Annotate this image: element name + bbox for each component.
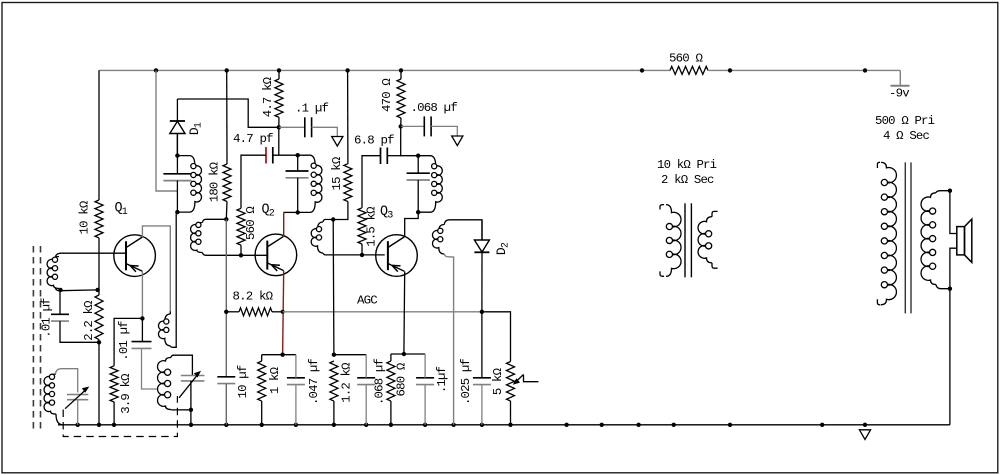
svg-text:560 Ω: 560 Ω (244, 206, 258, 240)
ferrite rod dashed line 2 (40, 246, 42, 430)
junction dot bottom rail 15 (600, 423, 604, 427)
wire 470 node down to IF3 (401, 126, 419, 155)
wire .025 column (481, 312, 483, 378)
junction dot bottom rail 1 (97, 423, 101, 427)
wire pot bottom (510, 401, 512, 425)
svg-text:15 kΩ: 15 kΩ (330, 156, 344, 190)
label 500 ohm pri (875, 114, 935, 128)
capacitor IF3 internal (407, 173, 430, 180)
oscillator feedback winding (158, 314, 170, 346)
label .01 uf osc (117, 321, 131, 361)
resistor R 470 ohm (397, 79, 405, 118)
wire IF3 sec top lead (444, 220, 482, 240)
capacitor IF2 internal (286, 171, 309, 178)
wire IF3 spine top (417, 156, 419, 174)
resistor R 680 ohm (387, 361, 395, 401)
svg-text:.01 µf: .01 µf (40, 298, 54, 338)
wire agc mid lead (272, 311, 283, 313)
svg-text:2 kΩ Sec: 2 kΩ Sec (661, 173, 714, 187)
gang dashed link (63, 396, 177, 437)
wire Q2 collector red (283, 212, 285, 236)
wire 15k bottom jog (333, 202, 348, 220)
label .1 uf (295, 102, 329, 116)
wire q3 bias column (332, 220, 335, 355)
junction dot bottom rail 9 (389, 423, 393, 427)
svg-text:AGC: AGC (357, 294, 377, 308)
wire node to .1uf (279, 126, 305, 128)
node dot IF1 top (175, 153, 179, 157)
svg-text:4.7 pf: 4.7 pf (233, 132, 273, 146)
junction dot bottom rail 6 (294, 423, 298, 427)
wire group1 bar (262, 354, 296, 356)
capacitor .068 uf em (357, 378, 375, 385)
junction dot bottom rail 0 (76, 423, 80, 427)
junction dot bottom rail 13 (508, 423, 512, 427)
svg-text:2.2 kΩ: 2.2 kΩ (82, 300, 96, 341)
resistor R 2.2 kohm (95, 295, 103, 340)
node dot speaker bottom (948, 287, 952, 291)
svg-text:500 Ω Pri: 500 Ω Pri (875, 114, 935, 128)
node dot group1 (280, 353, 284, 357)
node dot rail D (345, 68, 349, 72)
wire Q3 collector (405, 212, 419, 237)
label D1 (187, 122, 205, 135)
node dot rail B (225, 68, 229, 72)
wire left supply drop (98, 70, 100, 200)
IF1 secondary coil (191, 222, 203, 252)
label .01 uf input (40, 298, 54, 338)
resistor R 5 kohm volume (507, 362, 515, 401)
svg-text:4.7 kΩ: 4.7 kΩ (261, 76, 275, 117)
wire Q2 base line (241, 254, 267, 256)
wire 6.8pf left lead (362, 156, 381, 208)
wire group2 bar (334, 354, 366, 356)
resistor R 3.9 kohm (110, 366, 118, 402)
wire Q1 collector path (142, 226, 170, 311)
label 2.2 kohm (82, 300, 96, 341)
ferrite rod dashed line 1 (32, 246, 34, 430)
wire .1em leads (424, 354, 426, 425)
output primary coil (877, 162, 896, 304)
junction dot bottom rail 8 (364, 423, 368, 427)
wire 6.8pf right lead (387, 155, 401, 157)
node dot Q2e-agc (281, 310, 285, 314)
wire battery drop (899, 70, 901, 85)
node dot IF3 top (416, 154, 420, 158)
label 8.2 kohm (233, 290, 274, 304)
resistor R 180 kohm (223, 164, 231, 202)
IF3 primary coil (418, 156, 442, 213)
resistor R 560 ohm (237, 208, 245, 245)
svg-text:10 kΩ Pri: 10 kΩ Pri (657, 158, 717, 172)
junction dot bottom rail 5 (260, 423, 264, 427)
svg-text:-9v: -9v (889, 87, 910, 101)
junction dot bottom rail 20 (863, 423, 867, 427)
wire 15k top (347, 70, 349, 163)
svg-text:.1µf: .1µf (435, 366, 449, 393)
wire 470 leads (400, 70, 402, 126)
interstage primary coil (660, 205, 681, 277)
transistor Q1 (114, 235, 156, 277)
wire top supply rail left segment (99, 69, 670, 71)
wire .047 leads (295, 355, 297, 425)
label 1.5 kohm (365, 206, 379, 247)
wire top supply rail right segment (708, 69, 900, 71)
variable capacitor C1 tuning (67, 395, 88, 400)
resistor R 8.2 kohm (239, 308, 272, 316)
label 680 ohm (395, 362, 409, 396)
ground symbol 2 (452, 136, 463, 146)
output core (905, 162, 911, 313)
ground symbol 1 (332, 137, 343, 147)
label .068 uf em (373, 359, 387, 405)
wire .068 to gnd (431, 126, 457, 136)
wire cap1 bottom (60, 321, 99, 342)
capacitor 6.8 pf (381, 148, 388, 165)
junction dot bottom rail 12 (480, 423, 484, 427)
IF2 primary coil (298, 155, 322, 212)
speaker cone (965, 219, 972, 262)
node dot D2-agc (480, 310, 484, 314)
junction dot bottom rail 17 (672, 423, 676, 427)
label Q2 (262, 203, 275, 220)
junction dot bottom rail 11 (451, 423, 455, 427)
junction dot bottom rail 19 (820, 423, 824, 427)
label .068 uf (411, 101, 458, 115)
svg-text:6.8 pf: 6.8 pf (354, 134, 394, 148)
wire D2 top (481, 220, 483, 240)
capacitor 10 uf (217, 377, 235, 384)
label 10 kohm (78, 200, 92, 234)
resistor R 4.7 kohm (275, 79, 283, 117)
wire osc coil top lead (171, 355, 192, 375)
variable capacitor C2 osc (181, 376, 205, 381)
junction dot bottom rail 4 (224, 423, 228, 427)
capacitor .01 uf input (51, 314, 69, 321)
interstage core (685, 203, 691, 277)
resistor R 1.2 kohm (330, 361, 338, 401)
wire IF1 spine bottom (176, 181, 178, 213)
wire agc left lead (226, 311, 239, 313)
wire 4.7k node down to IF2 (278, 127, 280, 155)
svg-text:1 kΩ: 1 kΩ (268, 366, 282, 394)
speaker driver box (957, 227, 965, 255)
interstage secondary coil (698, 211, 718, 268)
node dot 470 bottom (399, 124, 403, 128)
wire bottom ground rail (58, 424, 950, 426)
diode D1 (170, 99, 185, 156)
capacitor IF1 internal (163, 174, 191, 181)
node dot IF3 bottom (416, 210, 420, 214)
wire 2.2k lower (98, 290, 100, 425)
svg-text:560 Ω: 560 Ω (669, 52, 704, 66)
junction dot bottom rail 16 (636, 423, 640, 427)
node dot 15k-sec2 (331, 217, 335, 221)
capacitor .1 uf (305, 117, 312, 137)
wire 4.7pf right lead (273, 154, 298, 156)
node dot speaker top (948, 189, 952, 193)
wire 4.7k leads (278, 70, 280, 127)
node dot 1.5k-base (360, 253, 364, 257)
capacitor .01 uf osc (132, 342, 152, 349)
wire out sec top lead (936, 191, 950, 193)
wire emitter to cap (141, 318, 143, 341)
varcap1 arrow (65, 387, 89, 409)
IF2 secondary coil (311, 222, 323, 253)
wire .1uf to gnd (312, 127, 338, 136)
label .047 uf (307, 359, 321, 405)
node dot rail H (863, 68, 867, 72)
junction dot bottom rail 2 (112, 423, 116, 427)
antenna tuned coil L2 (44, 374, 56, 414)
wire 1.2k bottom (333, 401, 335, 425)
wire Q2 emitter red (283, 271, 284, 355)
node dot group3 (402, 352, 406, 356)
wire 10uf bottom (225, 384, 227, 425)
node dot 4.7k bottom (277, 125, 281, 129)
label Q3 (380, 205, 393, 222)
transistor Q2 (255, 234, 297, 276)
node dot emitter-3.9k (140, 316, 144, 320)
wire varcap1 bottom (77, 400, 79, 425)
label 3.9 kohm (119, 373, 133, 414)
label 180 kohm (208, 161, 222, 202)
resistor R 1 kohm (258, 361, 266, 401)
wire varcap2 bottom (190, 381, 192, 425)
wire IF1 sec top lead (202, 219, 226, 222)
label 6.8 pf (354, 134, 394, 148)
label Q1 (115, 201, 128, 218)
junction dot bottom rail 3 (189, 423, 193, 427)
wire AGC line (283, 311, 482, 313)
svg-text:.01 µf: .01 µf (117, 321, 131, 361)
wire speaker feed top (950, 191, 957, 234)
wire Q3 emitter (403, 271, 406, 354)
diode D2 (474, 240, 489, 252)
wire coupling bottom lead (56, 289, 98, 291)
wire 180k top (226, 70, 228, 164)
wire IF2 spine top (297, 155, 299, 171)
wire D1 top link (177, 99, 278, 127)
wire agc to pot (482, 312, 511, 362)
wire D2 bottom (481, 252, 483, 311)
wire out sec bottom lead (936, 285, 950, 289)
label 4 ohm sec (883, 129, 929, 143)
wire 1k leads (261, 355, 263, 425)
label .025 uf (459, 359, 473, 405)
resistor R 15 kohm (344, 164, 352, 202)
wire Q1 emitter drop (141, 272, 143, 319)
wire AGC column (225, 219, 227, 376)
pot wiper arrow (513, 375, 539, 385)
wire cap1 top (59, 290, 61, 314)
junction dot bottom rail 10 (423, 423, 427, 427)
label 1 kohm (268, 366, 282, 394)
label 10 kohm pri (657, 158, 717, 172)
svg-text:.047 µf: .047 µf (307, 359, 321, 405)
wire 10k to bias node (98, 238, 100, 290)
resistor 560 ohm in supply rail (670, 66, 708, 74)
varcap2 arrow (179, 371, 201, 398)
node dot rail A (154, 68, 158, 72)
svg-text:3.9 kΩ: 3.9 kΩ (119, 373, 133, 414)
label 560 ohm (669, 52, 704, 66)
node dot bias1 (95, 288, 99, 292)
svg-text:4 Ω Sec: 4 Ω Sec (883, 129, 929, 143)
battery terminal -9v bar (891, 85, 910, 87)
wire feedback top lead (169, 311, 171, 314)
junction dot bottom rail 18 (728, 423, 732, 427)
transistor Q3 (376, 235, 418, 277)
label 2 kohm sec (661, 173, 714, 187)
wire osc cap bottom to tap (142, 348, 159, 389)
label D2 (494, 242, 512, 255)
wire IF2 bottom bar (284, 211, 298, 213)
wire group3 bar (391, 353, 425, 355)
wire tuned coil bottom lead (56, 414, 63, 425)
node dot IF1 bottom (175, 210, 179, 214)
label 15 kohm (330, 156, 344, 190)
svg-text:470 Ω: 470 Ω (380, 78, 394, 112)
wire right riser to speaker (949, 289, 951, 425)
label -9v (889, 87, 910, 101)
node dot rail E (399, 68, 403, 72)
wire .068em leads (365, 355, 367, 425)
svg-text:.068 µf: .068 µf (411, 101, 458, 115)
svg-text:180 kΩ: 180 kΩ (208, 161, 222, 202)
label 4.7 pf (233, 132, 273, 146)
svg-text:.025 µf: .025 µf (459, 359, 473, 405)
svg-text:.1 µf: .1 µf (295, 102, 329, 116)
label .1 uf em (435, 366, 449, 393)
wire IF2 spine bottom (297, 178, 299, 213)
label AGC (357, 294, 377, 308)
wire 3.9k top (114, 318, 142, 365)
capacitor .025 uf (473, 378, 491, 385)
wire osc coil bottom lead (171, 409, 191, 411)
wire 1.5k bottom (361, 244, 363, 255)
node dot 180k-sec (224, 217, 228, 221)
node dot IF2 top (296, 153, 300, 157)
wire 4.7pf left lead (241, 155, 266, 208)
wire node to .068 (401, 125, 425, 127)
wire IF3 spine bottom (417, 180, 419, 212)
IF3 secondary coil (432, 225, 444, 255)
wire speaker feed bottom (950, 248, 957, 289)
node dot rail C (277, 68, 281, 72)
wire feedback bottom lead (170, 212, 176, 347)
node dot coupling bottom (58, 288, 62, 292)
label 560 ohm q2 (244, 206, 258, 240)
junction dot bottom rail 7 (332, 423, 336, 427)
antenna coupling coil L1 (47, 257, 59, 289)
svg-text:10 µf: 10 µf (236, 365, 250, 398)
node dot AGC left (224, 310, 228, 314)
label 10 uf (236, 365, 250, 398)
IF1 primary coil (177, 156, 201, 213)
output secondary coil (921, 193, 936, 285)
oscillator coil L3 (158, 358, 171, 410)
wire 3.9k bottom (113, 402, 115, 425)
wire supply feed to IF1 (156, 70, 177, 191)
svg-text:1.2 kΩ: 1.2 kΩ (340, 362, 354, 403)
wire 560 bottom (240, 245, 242, 255)
node dot IF2 bottom (296, 210, 300, 214)
wire IF2 sec bottom lead (323, 253, 385, 255)
wire IF3 sec bottom lead (444, 254, 453, 425)
node dot rail G (728, 68, 732, 72)
svg-text:10 kΩ: 10 kΩ (78, 200, 92, 234)
label 1.2 kohm (340, 362, 354, 403)
wire IF1 spine top (176, 135, 178, 174)
svg-text:8.2 kΩ: 8.2 kΩ (233, 290, 274, 304)
capacitor .068 uf (424, 116, 431, 136)
svg-text:.068 µf: .068 µf (373, 359, 387, 405)
label 5 kohm (491, 367, 505, 395)
node dot group2 (332, 353, 336, 357)
wire .025 bottom (481, 385, 483, 425)
label 470 ohm (380, 78, 394, 112)
svg-text:680 Ω: 680 Ω (395, 362, 409, 396)
node dot rail F (640, 68, 644, 72)
node dot osc bottom (189, 408, 193, 412)
wire 680 leads (390, 354, 392, 425)
capacitor 4.7 pf (266, 147, 273, 164)
wire coupling top lead to Q1 base (56, 253, 127, 256)
wire tuned coil top lead (56, 369, 78, 393)
wire 180k bottom (225, 202, 228, 220)
resistor R 1.5 kohm (358, 208, 366, 244)
resistor R 10 kohm (95, 200, 103, 238)
svg-text:1.5 kΩ: 1.5 kΩ (365, 206, 379, 247)
wire IF1 sec bottom lead (202, 253, 241, 256)
node dot 560-base (239, 253, 243, 257)
ground symbol bottom (859, 430, 870, 440)
wire IF2 sec top lead (323, 219, 333, 222)
capacitor .047 uf (287, 378, 305, 385)
junction dot bottom rail 14 (564, 423, 568, 427)
capacitor .1 uf em (416, 378, 434, 385)
svg-text:5 kΩ: 5 kΩ (491, 367, 505, 395)
label 4.7 kohm (261, 76, 275, 117)
node dot cap1 bottom join (97, 340, 101, 344)
